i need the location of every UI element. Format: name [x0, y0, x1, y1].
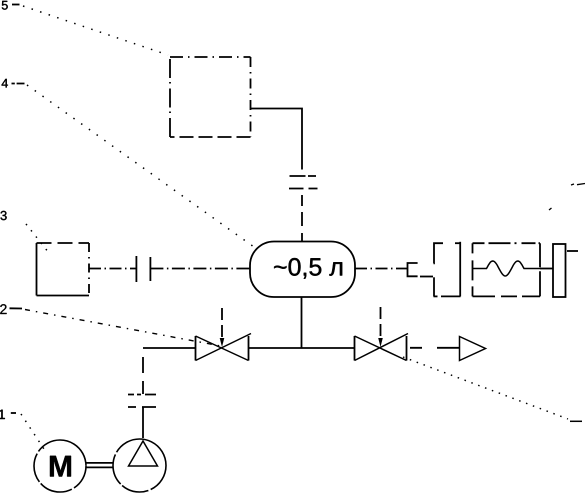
label 1 dash — [11, 412, 16, 414]
leader line to motor M — [21, 414, 44, 449]
pipe from lower union to pump — [142, 407, 144, 438]
label 1 — [0, 410, 5, 419]
valve V1 body — [196, 334, 252, 361]
label 4 — [2, 79, 8, 88]
value label ~0,5 l — [274, 258, 342, 279]
valve V2 body — [355, 334, 409, 361]
wire from box 5 to upper union — [251, 109, 303, 170]
lower union plate 1 — [128, 394, 156, 396]
shaft coupling double line — [87, 462, 113, 464]
wire bellows box to end plate — [540, 268, 553, 270]
pipe down from corner to lower union — [142, 348, 144, 394]
end plate block — [553, 244, 566, 297]
bellows wave — [473, 261, 541, 276]
leader line lower right end dash — [570, 420, 582, 422]
motor letter M — [50, 456, 71, 477]
dash-dot pipe from reservoir to coupling — [355, 268, 408, 270]
leader line to component 5 — [23, 6, 168, 55]
leader line to upper union — [27, 85, 254, 247]
main pipe middle segment — [249, 347, 355, 349]
left union tick 1 — [135, 256, 137, 282]
component 3: dashed box — [37, 243, 90, 296]
label 4 dash — [12, 83, 25, 85]
coupling plug — [408, 263, 418, 276]
reservoir ~0,5 l capsule — [250, 242, 355, 298]
valve V1 stem arrow — [220, 338, 225, 347]
nozzle triangle — [460, 337, 486, 361]
dash-dot pipe from union to reservoir — [150, 268, 250, 270]
label 3 — [1, 211, 7, 220]
left union tick 2 — [149, 257, 151, 281]
valve V1 stem — [221, 308, 223, 340]
stub dash right of end plate — [567, 250, 578, 252]
lower union plate 2 — [128, 406, 156, 408]
label 5 dash — [12, 4, 20, 6]
dashed wire from union down to reservoir — [301, 195, 303, 241]
valve V2 stem — [380, 307, 382, 340]
valve V2 stem arrow — [378, 338, 383, 347]
coupling socket claw — [434, 242, 461, 297]
component 5: dashed box (tank) — [170, 57, 251, 137]
wire from reservoir bottom to main pipe — [301, 297, 303, 348]
upper union / hose joint plate 1 — [290, 175, 318, 177]
upper union / hose joint plate 2 — [289, 188, 318, 190]
leader line from upper right to bellows box — [549, 208, 552, 210]
leader line lower right — [403, 357, 568, 419]
motor M circle — [34, 440, 86, 492]
dash-dot pipe from box 3 to union — [89, 268, 136, 270]
main pipe left segment — [143, 347, 196, 349]
pump triangle — [129, 441, 158, 466]
label 5 — [2, 1, 8, 10]
leader line to valve V1 — [25, 310, 221, 347]
dash-dot pipe from valve V2 to nozzle — [410, 347, 460, 349]
leader line to component 3 — [26, 224, 49, 253]
label 2 dash — [10, 307, 23, 309]
component 6: bellows box — [473, 243, 541, 296]
label 2 — [0, 304, 6, 314]
pump circle — [113, 439, 166, 492]
